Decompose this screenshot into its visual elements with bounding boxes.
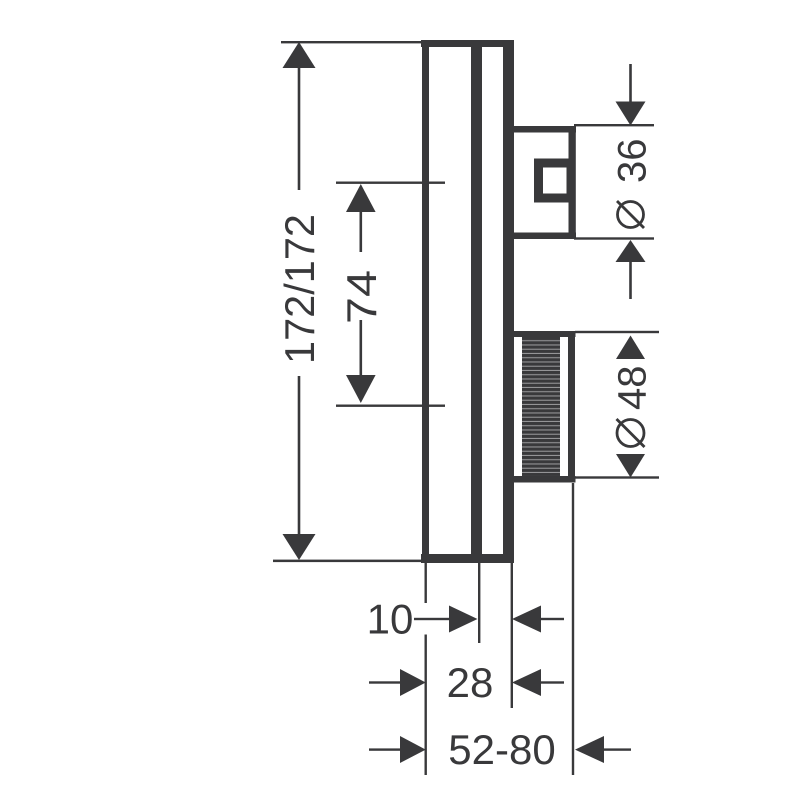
dim line lower segment (360, 320, 363, 376)
dimension diameter 48 (575, 331, 659, 479)
down arrowhead (346, 375, 376, 403)
extension line from plate inner line (478, 563, 480, 643)
extension line from plate left edge lower segment (425, 635, 427, 776)
left tail line (369, 748, 401, 750)
dimension 52-80 (369, 726, 631, 773)
dimension 28 (369, 659, 564, 706)
plate right edge (503, 40, 514, 563)
down arrowhead (616, 454, 645, 478)
svg-text:10: 10 (367, 596, 414, 643)
right arrowhead (449, 606, 478, 633)
dimension 74 (336, 182, 445, 407)
left arrowhead (512, 606, 541, 633)
extension line from plate right edge (511, 563, 513, 708)
plate top edge (421, 40, 514, 47)
dim line upper segment (360, 211, 363, 252)
thermostat knob (bottom protrusion) (509, 331, 576, 483)
up arrowhead (616, 240, 646, 262)
handle right edge (569, 126, 576, 239)
dimension 172/172 (273, 41, 423, 562)
svg-text:48: 48 (611, 366, 655, 411)
right tail line (540, 618, 564, 620)
label diameter 48 (611, 366, 655, 448)
dim line lower segment (298, 376, 301, 536)
svg-text:172/172: 172/172 (276, 214, 323, 364)
shut-off handle inner square (539, 163, 572, 198)
top extension line (574, 124, 654, 126)
knob knurled grip (522, 337, 560, 476)
dim line upper segment (298, 64, 301, 190)
down arrowhead (616, 102, 646, 126)
lower leader line (629, 261, 632, 299)
right tail line (540, 681, 564, 683)
knob right edge (568, 331, 575, 483)
dimension 10 (367, 596, 564, 643)
top extension line (336, 182, 445, 184)
handle top edge (509, 126, 576, 133)
extension line from plate left edge upper segment (425, 563, 427, 603)
left arrowhead (575, 736, 604, 763)
right tail line (603, 748, 631, 750)
extension line from knob face (572, 483, 574, 775)
bottom extension line (574, 237, 654, 239)
bottom extension line (273, 560, 423, 563)
top extension line (281, 41, 422, 43)
escutcheon plate outline (421, 40, 514, 563)
label diameter 36 (611, 139, 655, 229)
plate left edge (422, 40, 429, 563)
upper leader line (629, 64, 632, 105)
shut-off handle (top protrusion) (509, 126, 576, 239)
knob top edge (509, 331, 576, 337)
svg-text:36: 36 (611, 139, 655, 184)
left tail line (369, 681, 401, 683)
top extension line (575, 331, 659, 333)
left arrowhead (512, 669, 541, 696)
up arrowhead (616, 336, 645, 360)
up arrowhead (346, 184, 376, 212)
right arrowhead (400, 669, 426, 696)
svg-text:28: 28 (447, 659, 494, 706)
plate bottom edge (421, 554, 514, 563)
svg-text:52-80: 52-80 (448, 726, 555, 773)
down arrowhead (283, 534, 316, 560)
bottom extension line (575, 476, 659, 478)
leader line (414, 618, 450, 620)
bottom extension line (336, 405, 445, 407)
dimension diameter 36 (574, 64, 655, 299)
svg-text:74: 74 (338, 270, 385, 324)
knob bottom edge (509, 476, 576, 483)
handle bottom edge (509, 233, 576, 240)
up arrowhead (283, 42, 316, 68)
plate inner line (471, 45, 482, 556)
right arrowhead (400, 736, 426, 763)
